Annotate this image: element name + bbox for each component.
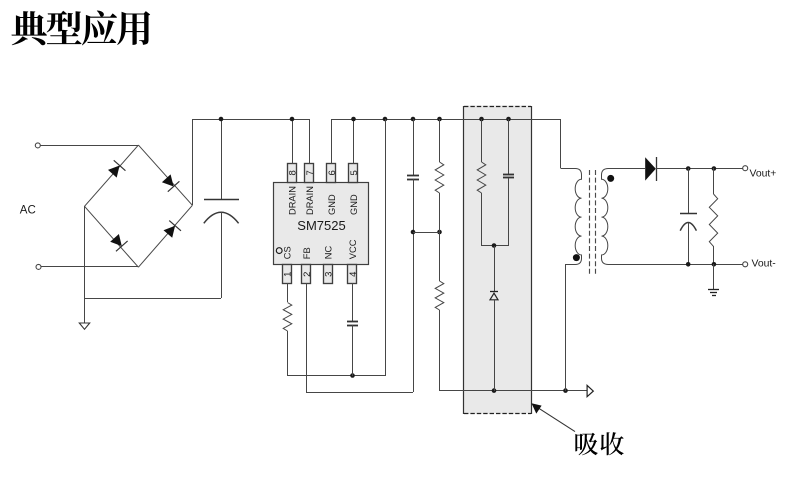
svg-text:CS: CS — [282, 246, 292, 259]
svg-text:FB: FB — [302, 247, 312, 259]
svg-text:5: 5 — [349, 170, 360, 175]
svg-text:GND: GND — [349, 194, 359, 215]
svg-text:SM7525: SM7525 — [297, 218, 345, 233]
svg-text:VCC: VCC — [348, 239, 358, 259]
svg-text:DRAIN: DRAIN — [287, 186, 297, 215]
svg-text:DRAIN: DRAIN — [305, 186, 315, 215]
svg-text:6: 6 — [327, 170, 338, 175]
svg-text:GND: GND — [327, 194, 337, 215]
svg-text:8: 8 — [287, 170, 298, 175]
svg-text:4: 4 — [348, 272, 359, 277]
svg-text:Vout+: Vout+ — [750, 168, 777, 179]
svg-text:NC: NC — [323, 245, 333, 259]
svg-text:AC: AC — [20, 204, 36, 216]
svg-text:Vout-: Vout- — [752, 259, 776, 270]
svg-text:2: 2 — [302, 272, 313, 277]
svg-text:3: 3 — [323, 272, 334, 277]
svg-text:7: 7 — [305, 170, 316, 175]
svg-text:1: 1 — [282, 272, 293, 277]
